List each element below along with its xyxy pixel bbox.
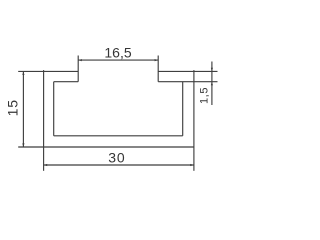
svg-text:16,5: 16,5: [104, 44, 131, 60]
svg-text:30: 30: [108, 149, 125, 165]
svg-text:15: 15: [5, 99, 21, 116]
svg-text:1,5: 1,5: [198, 87, 210, 104]
